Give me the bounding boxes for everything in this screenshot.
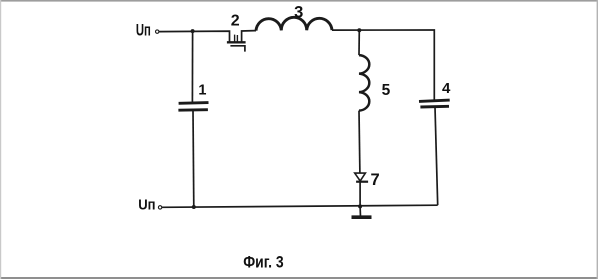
svg-text:2: 2 (231, 13, 240, 30)
svg-text:4: 4 (442, 80, 451, 97)
svg-text:3: 3 (294, 4, 303, 22)
svg-text:Фиг. 3: Фиг. 3 (243, 252, 284, 271)
svg-text:7: 7 (371, 171, 380, 189)
svg-text:5: 5 (382, 82, 391, 99)
svg-text:Uп: Uп (136, 21, 151, 39)
svg-text:Uп: Uп (138, 197, 155, 214)
svg-text:1: 1 (198, 82, 206, 98)
